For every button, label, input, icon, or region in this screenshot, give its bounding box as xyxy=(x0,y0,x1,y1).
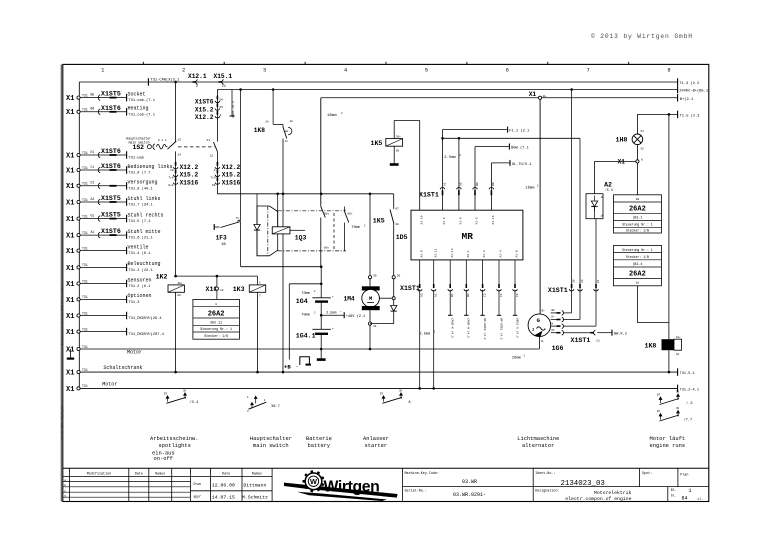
svg-text:T31_DKSSYU(207.4: T31_DKSSYU(207.4 xyxy=(128,332,164,337)
svg-text:B7: B7 xyxy=(380,392,384,395)
svg-text:X1: X1 xyxy=(66,95,74,103)
svg-text:Names: Names xyxy=(155,472,165,476)
wire: MR pin3 xyxy=(458,138,460,210)
svg-text:B7: B7 xyxy=(657,410,661,413)
svg-text:Schutzvermerk nach DIN 34 beac: Schutzvermerk nach DIN 34 beachten xyxy=(61,284,65,345)
svg-text:T+0: T+0 xyxy=(210,177,215,180)
svg-text:1G4: 1G4 xyxy=(296,298,308,305)
svg-text:MR: MR xyxy=(462,231,474,242)
svg-text:1K2: 1K2 xyxy=(156,273,168,280)
svg-text:T31.7 (34.1: T31.7 (34.1 xyxy=(128,203,153,208)
svg-text:T31: T31 xyxy=(82,327,88,331)
wires: MR pins to ground buses xyxy=(419,290,421,389)
svg-text:starter: starter xyxy=(365,443,388,449)
svg-text:6: 6 xyxy=(641,159,643,162)
wire: 1F3 output down xyxy=(240,222,242,267)
wire: 1K8 coil feed from T1.5 xyxy=(668,114,670,339)
svg-text:battery: battery xyxy=(308,443,331,449)
svg-text:30: 30 xyxy=(399,389,403,392)
svg-text:alternator: alternator xyxy=(522,443,554,449)
svg-text:EGK1 (8.4: EGK1 (8.4 xyxy=(231,101,235,117)
svg-text:H0: H0 xyxy=(178,294,182,297)
wire: bus Motor2 y=388.4 xyxy=(80,387,678,389)
svg-text:/.3: /.3 xyxy=(686,401,692,406)
svg-text:16mm: 16mm xyxy=(512,357,522,361)
alternator right pins with connectors xyxy=(551,312,557,314)
svg-text:X1ST1: X1ST1 xyxy=(400,285,420,292)
svg-text:03.WR.0291-03_WR_03: 03.WR.0291-03_WR_03 xyxy=(62,406,65,440)
wire: 1K8 contact column down to bus xyxy=(282,139,284,373)
jumper symbol near +B xyxy=(300,357,310,365)
svg-text:Drwn: Drwn xyxy=(194,482,202,486)
connector row Versorgung xyxy=(77,184,80,187)
main switch aux symbol xyxy=(254,396,257,403)
svg-text:T31: T31 xyxy=(82,214,88,218)
svg-text:X2: X2 xyxy=(641,148,645,151)
1S2 left blade xyxy=(166,146,168,148)
svg-text:A1: A1 xyxy=(435,293,438,297)
title block top line xyxy=(63,467,709,469)
svg-text:18: 18 xyxy=(170,169,174,172)
svg-text:BW.K.2: BW.K.2 xyxy=(614,333,627,337)
svg-text:T31.9 (7.7: T31.9 (7.7 xyxy=(128,171,150,176)
svg-text:6 1 2: 6 1 2 xyxy=(158,139,167,142)
wire: MR pin4 to BGW xyxy=(474,147,476,211)
svg-text:Bl.: Bl. xyxy=(671,488,677,492)
wire: left X1 bus vertical xyxy=(78,82,80,388)
svg-text:2.5mm: 2.5mm xyxy=(444,156,456,160)
wire: +B branch xyxy=(289,283,321,285)
svg-text:X1: X1 xyxy=(66,386,74,394)
alternator 1G6 xyxy=(528,314,551,337)
wire: 1S2 right pole vertical x=217.4 xyxy=(216,90,218,142)
svg-text:T31: T31 xyxy=(82,295,88,299)
svg-text:38: 38 xyxy=(395,223,399,226)
svg-text:67: 67 xyxy=(395,208,399,211)
wire: pin B6 up xyxy=(563,312,572,314)
svg-text:spotlights: spotlights xyxy=(159,443,191,449)
svg-text:2.5mm: 2.5mm xyxy=(419,333,430,337)
drawing frame border xyxy=(63,64,709,501)
svg-text:X1-13: X1-13 xyxy=(451,248,454,257)
svg-text:Batterie: Batterie xyxy=(306,436,332,442)
svg-text:B6: B6 xyxy=(91,107,95,111)
connector row T31_DKSSYU(26.4 xyxy=(77,314,80,317)
svg-text:60s: 60s xyxy=(324,212,329,215)
connector trio lower-left on x=175.6 xyxy=(175,162,177,166)
svg-text:T31.3: T31.3 xyxy=(128,301,139,305)
svg-text:1Q3: 1Q3 xyxy=(295,234,307,241)
svg-text:Optionen: Optionen xyxy=(128,293,152,299)
connector row Stuhl rechts xyxy=(77,217,80,220)
controller box 26A2 #2 xyxy=(614,195,662,233)
svg-text:1K5: 1K5 xyxy=(371,140,383,147)
wire: pin W up to A2 xyxy=(563,325,596,327)
svg-text:Serial-No.:: Serial-No.: xyxy=(405,489,427,494)
svg-text:T31: T31 xyxy=(82,311,88,315)
svg-text:X6.7: X6.7 xyxy=(271,405,280,409)
wire: control rail y=276.1 xyxy=(176,275,258,277)
diode 1D5 symbol xyxy=(393,300,395,305)
row Motor 2 xyxy=(77,387,80,390)
connector row T31-uab xyxy=(77,153,80,156)
svg-text:/3.4: /3.4 xyxy=(190,400,199,405)
svg-text:1G6: 1G6 xyxy=(552,345,564,352)
svg-text:5: 5 xyxy=(425,68,428,74)
wire: bus line B y=89.5 xyxy=(217,89,677,91)
svg-text:1: 1 xyxy=(101,68,104,74)
1Q3 aux contact xyxy=(344,207,346,212)
svg-text:X12.1: X12.1 xyxy=(188,73,207,80)
svg-text:16mm: 16mm xyxy=(525,187,535,191)
svg-text:14: 14 xyxy=(178,153,182,156)
1S2 right blade xyxy=(214,142,218,152)
wire: alternator B+ column xyxy=(539,99,541,314)
svg-text:Anlasser: Anlasser xyxy=(363,436,389,442)
svg-text:T31: T31 xyxy=(82,263,88,267)
svg-text:CAN3-H (4.2: CAN3-H (4.2 xyxy=(467,318,471,338)
svg-text:16mm: 16mm xyxy=(327,114,337,118)
svg-text:Schaltschrank: Schaltschrank xyxy=(103,365,142,371)
connector row Stuhl mitte xyxy=(77,234,80,237)
svg-text:cl.: cl. xyxy=(698,497,704,501)
svg-text:T31.5.1: T31.5.1 xyxy=(680,372,695,376)
wire: to A2 xyxy=(595,160,636,162)
svg-text:D1: D1 xyxy=(91,181,95,185)
svg-text:X1S16: X1S16 xyxy=(180,179,199,186)
Wirtgen logo xyxy=(284,471,398,502)
svg-text:Steuerung Nr.: 1: Steuerung Nr.: 1 xyxy=(200,327,232,331)
inline connector X12.1 xyxy=(193,81,197,83)
1K5 coil ground xyxy=(393,146,395,163)
svg-text:X12.2: X12.2 xyxy=(180,164,199,171)
svg-text:2: 2 xyxy=(182,68,185,74)
wire: motor feed x=370 xyxy=(369,194,371,276)
svg-text:X1ST1: X1ST1 xyxy=(548,287,568,294)
svg-text:Date: Date xyxy=(222,472,230,476)
svg-text:39: 39 xyxy=(636,198,640,201)
svg-text:DF: DF xyxy=(552,329,556,332)
svg-text:on-off: on-off xyxy=(154,456,173,462)
svg-text:T31: T31 xyxy=(82,108,88,112)
svg-text:Designation:: Designation: xyxy=(535,489,559,494)
dash-dot rails to aux contacts xyxy=(278,210,346,212)
svg-text:30: 30 xyxy=(572,279,575,283)
svg-text:B0: B0 xyxy=(476,182,479,186)
svg-text:D+0: D+0 xyxy=(168,184,173,187)
svg-text:30: 30 xyxy=(373,275,377,278)
svg-text:X1S16: X1S16 xyxy=(222,179,241,186)
svg-text:Bedienung links: Bedienung links xyxy=(128,164,173,170)
svg-text:appr: appr xyxy=(194,495,202,499)
svg-text:T31: T31 xyxy=(82,345,88,349)
svg-text:3: 3 xyxy=(532,328,535,333)
svg-text:T31: T31 xyxy=(82,182,88,186)
svg-text:C1: C1 xyxy=(596,339,600,342)
svg-text:T31-uab: T31-uab xyxy=(128,156,144,161)
svg-text:13: 13 xyxy=(178,139,182,142)
svg-text:B5: B5 xyxy=(91,92,95,96)
svg-text:30: 30 xyxy=(676,391,680,394)
svg-text:D6: D6 xyxy=(212,184,216,187)
svg-text:X1: X1 xyxy=(66,183,74,191)
wire: MR pin2 to terminal F1.1 xyxy=(442,130,444,211)
svg-text:B0: B0 xyxy=(467,293,470,297)
svg-text:T31: T31 xyxy=(82,198,88,202)
inline connector X15.1 xyxy=(219,81,223,83)
svg-text:a: a xyxy=(64,479,66,482)
svg-text:B6: B6 xyxy=(552,309,556,312)
svg-text:X1: X1 xyxy=(529,91,537,98)
svg-text:1D5: 1D5 xyxy=(396,234,408,241)
svg-text:GRD1-S (4.2: GRD1-S (4.2 xyxy=(515,318,519,338)
svg-text:Stuhl links: Stuhl links xyxy=(128,196,161,202)
svg-text:T31_cab-(7.1: T31_cab-(7.1 xyxy=(128,112,155,117)
svg-text:X1-6: X1-6 xyxy=(443,217,446,224)
svg-text:12.06.00: 12.06.00 xyxy=(212,482,235,488)
svg-text:Heating: Heating xyxy=(128,106,149,112)
row Schaltschrank xyxy=(77,371,80,374)
svg-text:X1-4: X1-4 xyxy=(500,250,503,257)
svg-text:302.11: 302.11 xyxy=(210,321,222,325)
svg-text:T31.6 (21.1: T31.6 (21.1 xyxy=(128,236,153,241)
svg-text:61: 61 xyxy=(597,279,600,283)
svg-text:8: 8 xyxy=(668,68,671,74)
svg-text:Modification: Modification xyxy=(87,471,111,476)
wire: bus Motor y=349 xyxy=(80,348,539,350)
svg-text:1M4: 1M4 xyxy=(344,295,355,302)
svg-text:(B2.1: (B2.1 xyxy=(632,216,642,220)
svg-text:80s: 80s xyxy=(324,246,329,249)
svg-text:X1ST6: X1ST6 xyxy=(101,228,121,235)
svg-text:11: 11 xyxy=(285,140,289,143)
svg-text:+: + xyxy=(332,296,334,299)
svg-text:-: - xyxy=(296,364,299,370)
terminal T1.3 xyxy=(677,78,679,86)
wire: 1Q3 contact to battery xyxy=(241,266,322,268)
svg-text:26A2: 26A2 xyxy=(208,311,225,319)
svg-text:electr.compon.of engine: electr.compon.of engine xyxy=(565,496,631,502)
svg-text:T31: T31 xyxy=(82,384,88,388)
svg-text:X2-1: X2-1 xyxy=(467,250,470,257)
svg-text:X12.2: X12.2 xyxy=(222,164,241,171)
svg-text:30: 30 xyxy=(397,275,401,278)
svg-text:/5.3: /5.3 xyxy=(605,188,613,192)
svg-text:T31.2-4.1: T31.2-4.1 xyxy=(680,388,699,392)
indicator lamp 1H8 xyxy=(636,114,638,134)
svg-text:X1ST1: X1ST1 xyxy=(419,192,439,199)
svg-text:c: c xyxy=(64,490,66,493)
auxiliary switch symbol xyxy=(382,396,385,402)
svg-text:-: - xyxy=(332,334,334,337)
svg-text:E1: E1 xyxy=(91,150,95,154)
svg-text:© 2013 by Wirtgen GmbH: © 2013 by Wirtgen GmbH xyxy=(591,32,693,40)
auxiliary switch symbol xyxy=(659,397,662,403)
column tick marks xyxy=(142,62,144,65)
svg-text:Beleuchtung: Beleuchtung xyxy=(128,261,161,267)
svg-text:6: 6 xyxy=(506,68,509,74)
svg-text:Motor: Motor xyxy=(102,382,117,388)
svg-text:X15.1: X15.1 xyxy=(214,73,233,80)
svg-text:T1.3 (2.2: T1.3 (2.2 xyxy=(679,81,699,86)
svg-text:T31.8 (40.1: T31.8 (40.1 xyxy=(128,186,153,191)
svg-text:18: 18 xyxy=(636,282,640,285)
battery ground bar xyxy=(320,349,322,359)
svg-text:24VDC-B+(B5.1: 24VDC-B+(B5.1 xyxy=(679,89,709,94)
svg-text:T31: T31 xyxy=(82,93,88,97)
svg-text:T31-cab-(7.1: T31-cab-(7.1 xyxy=(128,98,155,103)
svg-text:X1ST6: X1ST6 xyxy=(101,148,121,155)
svg-text:B-: B- xyxy=(541,340,545,343)
wire: pin D+ up xyxy=(563,319,580,321)
svg-text:T31.4 (6.1: T31.4 (6.1 xyxy=(128,251,151,256)
row Motor (bus) with ground xyxy=(77,347,80,350)
alternator B- to bus xyxy=(538,337,540,350)
svg-text:X1: X1 xyxy=(66,313,74,321)
svg-text:D4: D4 xyxy=(220,106,224,109)
connector row Socket xyxy=(77,96,80,99)
svg-text:1: 1 xyxy=(689,488,692,494)
svg-text:-: - xyxy=(332,302,334,305)
svg-text:X1: X1 xyxy=(66,265,74,273)
svg-text:70mm: 70mm xyxy=(351,226,360,230)
svg-text:T31: T31 xyxy=(82,368,88,372)
svg-text:Motor: Motor xyxy=(127,349,142,355)
connector row Sensoren xyxy=(77,282,80,285)
svg-text:7: 7 xyxy=(587,68,590,74)
wire: MR pin1 to 1K5 coil xyxy=(419,121,421,211)
svg-text:C0: C0 xyxy=(516,293,519,297)
svg-text:X1: X1 xyxy=(66,370,74,378)
svg-text:1K5: 1K5 xyxy=(373,217,385,224)
svg-text:C4: C4 xyxy=(500,293,503,297)
fuse switch 1F3 xyxy=(240,90,242,221)
svg-text:1K8: 1K8 xyxy=(254,127,265,134)
svg-text:G1: G1 xyxy=(91,213,95,217)
connector row Stuhl links xyxy=(77,200,80,203)
svg-text:X1-10: X1-10 xyxy=(420,215,423,224)
svg-text:Steuerung Nr.: 1: Steuerung Nr.: 1 xyxy=(622,223,653,227)
svg-text:A1+: A1+ xyxy=(676,336,681,339)
svg-text:21: 21 xyxy=(206,139,210,142)
auxiliary switch symbol xyxy=(166,396,169,402)
svg-text:1H8: 1H8 xyxy=(616,137,628,144)
svg-text:B+: B+ xyxy=(542,310,546,313)
svg-text:HP-GRD2 (4.2: HP-GRD2 (4.2 xyxy=(483,318,487,340)
svg-text:X1-5: X1-5 xyxy=(476,217,479,224)
svg-text:T31.2 (6.1: T31.2 (6.1 xyxy=(128,284,151,289)
node X10 xyxy=(216,276,218,287)
svg-text:B8: B8 xyxy=(492,182,495,186)
terminal B+ xyxy=(677,94,679,102)
auxiliary switch symbol xyxy=(659,414,662,420)
svg-text:T31_DKSSYU(26.4: T31_DKSSYU(26.4 xyxy=(128,316,162,321)
svg-text:Motor läuft: Motor läuft xyxy=(650,436,686,442)
svg-text:X1-16: X1-16 xyxy=(492,215,495,224)
svg-text:X1-11: X1-11 xyxy=(434,248,437,257)
svg-text:D+: D+ xyxy=(552,316,556,319)
svg-text:22: 22 xyxy=(210,154,214,157)
svg-text:1S2: 1S2 xyxy=(133,144,145,151)
svg-text:(B2.4: (B2.4 xyxy=(632,262,642,266)
svg-text:Ident-No.:: Ident-No.: xyxy=(535,471,555,476)
svg-text:Stecker: 1/8: Stecker: 1/8 xyxy=(204,334,228,338)
svg-text:X15.2: X15.2 xyxy=(195,106,214,113)
svg-text:X1-3: X1-3 xyxy=(483,250,486,257)
svg-text:X15.2: X15.2 xyxy=(222,172,241,179)
svg-text:X1-8: X1-8 xyxy=(420,250,423,257)
1Q3 main contact xyxy=(320,204,322,207)
svg-text:F1.1 (2.1: F1.1 (2.1 xyxy=(509,129,530,134)
svg-text:Stecker: 1/B: Stecker: 1/B xyxy=(626,229,649,233)
wire: T1.5 feed line xyxy=(637,113,677,115)
svg-text:Machine-Key-Code:: Machine-Key-Code: xyxy=(405,471,440,476)
svg-text:Ventile: Ventile xyxy=(128,244,149,250)
svg-text:Dittmann: Dittmann xyxy=(243,482,266,488)
controller box 26A2 #3 xyxy=(614,245,662,285)
svg-text:84: 84 xyxy=(682,496,688,502)
svg-text:Plan: Plan xyxy=(680,472,688,477)
svg-text:Date: Date xyxy=(135,472,143,476)
svg-text:CAN3-K (4.2: CAN3-K (4.2 xyxy=(451,318,455,338)
connector row T31_DKSSYU(207.4 xyxy=(77,330,80,333)
svg-text:T31: T31 xyxy=(82,279,88,283)
svg-text:Names: Names xyxy=(252,472,262,476)
engine controller MR xyxy=(411,210,523,260)
svg-text:M: M xyxy=(369,296,372,302)
net label columns below MR xyxy=(449,290,451,316)
svg-text:D4: D4 xyxy=(220,99,224,102)
svg-text:03.WR.0291-: 03.WR.0291- xyxy=(453,492,486,498)
svg-text:X1: X1 xyxy=(66,297,74,305)
svg-text:3: 3 xyxy=(263,68,266,74)
svg-text:26A2: 26A2 xyxy=(629,271,646,279)
contactor 1Q3 outline box xyxy=(257,206,278,256)
connector trio lower-right on x=217.4 xyxy=(216,162,218,166)
svg-text:T+0: T+0 xyxy=(168,177,173,180)
svg-text:30: 30 xyxy=(183,389,187,392)
svg-text:03.WR: 03.WR xyxy=(462,479,477,485)
svg-text:T31: T31 xyxy=(82,231,88,235)
svg-text:A2: A2 xyxy=(676,353,680,356)
svg-text:bl.: bl. xyxy=(671,494,677,498)
svg-text:30: 30 xyxy=(676,407,680,410)
svg-text:31: 31 xyxy=(373,325,377,328)
terminal 24VDC xyxy=(677,86,679,94)
svg-text:X1: X1 xyxy=(618,158,626,165)
svg-text:C2: C2 xyxy=(222,84,226,88)
svg-text:X1ST5: X1ST5 xyxy=(101,212,121,219)
ground symbol left xyxy=(70,349,72,358)
relay contact 1K8 xyxy=(272,90,274,125)
svg-text:X1: X1 xyxy=(66,152,74,160)
svg-text:A1: A1 xyxy=(91,197,95,201)
wire: 1K3 coil to bus xyxy=(257,292,259,372)
svg-text:T31: T31 xyxy=(82,166,88,170)
svg-text:b: b xyxy=(64,483,66,487)
motor bottom to bus xyxy=(369,310,371,322)
connector row Optionen xyxy=(77,298,80,301)
connector row Ventile xyxy=(77,249,80,252)
1Q3 internal dash-dot xyxy=(267,206,269,256)
svg-text:T1: T1 xyxy=(236,217,240,220)
svg-text:2134023_03: 2134023_03 xyxy=(561,480,605,488)
svg-text:C1: C1 xyxy=(91,165,95,169)
svg-text:B7: B7 xyxy=(164,392,168,395)
svg-text:1K8: 1K8 xyxy=(645,343,657,350)
wire: 1K8 coil to bus xyxy=(668,350,670,372)
svg-text:T1.5 (2.3: T1.5 (2.3 xyxy=(680,113,700,118)
